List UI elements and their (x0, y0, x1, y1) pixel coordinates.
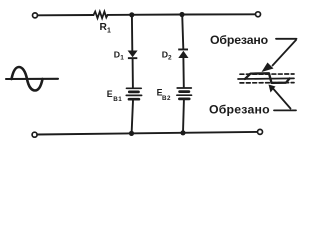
wire top rail right segment (182, 13, 256, 15)
leader line bottom (274, 89, 297, 110)
node junction top of D1 branch (129, 12, 134, 17)
wire bottom rail (37, 132, 257, 135)
lower clipping level dashed line (240, 82, 294, 84)
svg-text:B2: B2 (162, 95, 171, 102)
svg-text:E: E (107, 89, 113, 99)
diode D1 (cathode down) (128, 51, 138, 60)
clipped sine waveform (245, 73, 290, 83)
battery EB2 (177, 88, 192, 99)
svg-text:Обрезано: Обрезано (210, 33, 269, 47)
wire D1 to battery EB1 (132, 59, 134, 87)
AC source sine symbol (6, 67, 58, 91)
wire D2 to battery EB2 (182, 58, 184, 87)
svg-text:1: 1 (107, 27, 111, 34)
battery EB1 (126, 88, 141, 99)
node junction bottom of D1 branch (129, 131, 134, 136)
wire branch1 from top node to D1 (131, 15, 133, 51)
svg-text:Обрезано: Обрезано (209, 102, 270, 116)
arrowhead top leader (262, 63, 274, 73)
leader line top (273, 39, 297, 66)
wire EB2 to bottom node (182, 100, 185, 133)
upper clipping level dashed line (240, 73, 294, 75)
clipped waveform axis line (238, 77, 294, 80)
arrowhead bottom leader (269, 85, 276, 93)
wire EB1 to bottom node (132, 100, 133, 133)
node junction top of D2 branch (179, 12, 184, 17)
svg-text:B1: B1 (113, 96, 122, 103)
svg-text:D: D (114, 49, 120, 59)
input terminal top-left (33, 13, 38, 18)
diode D2 (cathode up) (178, 49, 188, 59)
wire top rail left segment (38, 14, 94, 16)
node junction bottom of D2 branch (180, 130, 185, 135)
wire branch2 from top node to D2 (182, 15, 183, 49)
input terminal bottom-left (32, 132, 37, 137)
resistor R1 (94, 12, 108, 19)
output terminal top-right (256, 12, 261, 17)
output terminal bottom-right (258, 129, 263, 134)
wire top rail middle segment (108, 14, 182, 16)
svg-text:1: 1 (120, 54, 124, 61)
svg-text:2: 2 (168, 55, 172, 62)
